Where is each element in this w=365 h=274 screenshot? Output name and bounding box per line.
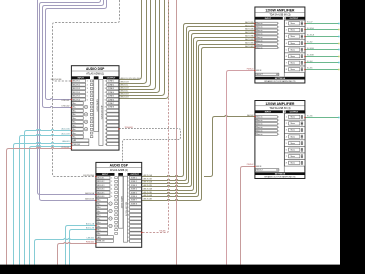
svg-text:6: 6 bbox=[278, 134, 279, 136]
wire end tick 8 bbox=[338, 69, 339, 71]
svg-text:3: 3 bbox=[286, 36, 287, 38]
svg-text:Mono: Mono bbox=[291, 143, 295, 145]
wire end tick 5 bbox=[338, 49, 339, 51]
svg-text:15: 15 bbox=[105, 133, 107, 135]
wire net SL-206 (green, amplifier2 output to right edge) bbox=[305, 117, 340, 119]
svg-text:Mic-: Mic- bbox=[73, 137, 77, 139]
svg-text:8: 8 bbox=[286, 69, 287, 71]
svg-text:AB-TL02A: AB-TL02A bbox=[144, 181, 153, 184]
svg-text:Mic-: Mic- bbox=[97, 211, 101, 213]
svg-text:17: 17 bbox=[105, 140, 107, 142]
svg-text:16: 16 bbox=[105, 137, 107, 139]
amplifier2 output pin marker bbox=[304, 117, 306, 119]
wire net AB-TL01A (olive, DSP2 output to amplifier1 input) bbox=[142, 24, 255, 177]
svg-text:SETTINGS: SETTINGS bbox=[275, 78, 286, 80]
svg-text:7: 7 bbox=[128, 200, 129, 202]
svg-text:PWR 24V: PWR 24V bbox=[73, 144, 81, 146]
svg-text:AB-D02-L: AB-D02-L bbox=[121, 84, 129, 87]
svg-text:SL-L07: SL-L07 bbox=[307, 22, 313, 24]
svg-text:1: 1 bbox=[278, 117, 279, 119]
svg-text:6: 6 bbox=[105, 99, 106, 101]
svg-text:OUTPUT: OUTPUT bbox=[290, 111, 299, 113]
wire net LAN-002 (cyan, bottom edge to DSP2) bbox=[35, 238, 96, 264]
svg-text:MIC/LN 4: MIC/LN 4 bbox=[73, 92, 80, 94]
wire net AB-D04-R (olive, DSP1 output to top edge) bbox=[119, 0, 169, 99]
svg-text:6: 6 bbox=[286, 56, 287, 58]
svg-text:ZONE 8: ZONE 8 bbox=[131, 203, 137, 205]
svg-text:INPUT: INPUT bbox=[265, 18, 272, 20]
svg-text:AB-TL01B: AB-TL01B bbox=[144, 177, 153, 180]
wire end tick 4 bbox=[338, 43, 339, 45]
svg-text:SL-206: SL-206 bbox=[307, 116, 313, 118]
svg-text:SPEAKER OUT FOR EARPHONE 7X5: SPEAKER OUT FOR EARPHONE 7X5 bbox=[264, 80, 295, 83]
svg-text:8: 8 bbox=[278, 47, 279, 49]
wire net AB-TL01B (olive, DSP2 output to amplifier1 input) bbox=[142, 27, 255, 181]
svg-text:AB-D01-R: AB-D01-R bbox=[121, 81, 130, 84]
svg-text:18: 18 bbox=[128, 241, 130, 243]
svg-text:Mic+: Mic+ bbox=[97, 222, 101, 224]
svg-text:Mono in: Mono in bbox=[256, 130, 262, 132]
svg-text:13: 13 bbox=[128, 222, 130, 224]
svg-text:OUTPUT: OUTPUT bbox=[107, 77, 116, 79]
svg-text:4: 4 bbox=[278, 34, 279, 36]
wire net ACD-L1B (cyan, bottom edge to DSP1) bbox=[20, 134, 72, 264]
audio dsp U1 (ATLAS AZM8 (1)) bbox=[71, 66, 119, 150]
svg-text:1200W AMPLIFIER: 1200W AMPLIFIER bbox=[265, 102, 295, 106]
svg-text:L1: L1 bbox=[110, 203, 112, 205]
svg-text:Mic+: Mic+ bbox=[97, 200, 101, 202]
svg-text:8: 8 bbox=[105, 107, 106, 109]
svg-text:AB-TL02B: AB-TL02B bbox=[245, 31, 254, 34]
DSP1 output/trigger pin markers bbox=[118, 128, 120, 130]
svg-text:Mic-: Mic- bbox=[73, 129, 77, 131]
wire net SL-L01A (green, amplifier1 output to right edge) bbox=[305, 29, 340, 31]
svg-text:SL-303B: SL-303B bbox=[307, 54, 314, 56]
svg-text:1: 1 bbox=[278, 23, 279, 25]
svg-text:2: 2 bbox=[286, 30, 287, 32]
wire end tick 7 bbox=[338, 62, 339, 64]
svg-text:L4: L4 bbox=[85, 129, 87, 131]
svg-text:1: 1 bbox=[87, 81, 88, 83]
svg-text:Mic-: Mic- bbox=[73, 107, 77, 109]
wire net AB-D06 (olive, junction on AB-TL01A up to amplifier2 input) bbox=[204, 115, 255, 176]
svg-text:Mono: Mono bbox=[291, 163, 295, 165]
svg-text:AB-D01-L/02-L/03-L/04-L: AB-D01-L/02-L/03-L/04-L bbox=[121, 77, 141, 80]
svg-text:PDW-01: PDW-01 bbox=[247, 69, 254, 71]
svg-text:Mono in: Mono in bbox=[256, 44, 262, 46]
svg-text:11: 11 bbox=[128, 215, 130, 217]
svg-text:AB-D06: AB-D06 bbox=[247, 114, 253, 117]
svg-text:Mono in: Mono in bbox=[256, 124, 262, 126]
svg-text:Mono: Mono bbox=[291, 62, 295, 64]
wire net ACD-L2A (cyan, bottom edge to DSP2) bbox=[66, 226, 96, 265]
svg-text:LAN-002: LAN-002 bbox=[87, 236, 94, 239]
svg-text:SL-301-B: SL-301-B bbox=[307, 35, 315, 37]
wire net LINK-001 (purple hook from top, to DSP1 pin) bbox=[46, 0, 107, 100]
svg-text:MATRIX MIXER: MATRIX MIXER bbox=[120, 196, 123, 209]
svg-text:SELECT: SELECT bbox=[256, 74, 263, 76]
svg-text:SL-305: SL-305 bbox=[307, 68, 313, 70]
wire net AB-D02-L (olive, DSP1 output to top edge) bbox=[119, 0, 151, 87]
svg-text:Mic-: Mic- bbox=[73, 114, 77, 116]
svg-text:Mic+: Mic+ bbox=[73, 125, 77, 127]
svg-text:9: 9 bbox=[105, 110, 106, 112]
svg-text:6: 6 bbox=[111, 196, 112, 198]
amplifier U4 (TDA 5A-USB 8V (4)) bbox=[255, 101, 305, 179]
svg-text:SL-302A: SL-302A bbox=[307, 47, 314, 50]
svg-text:PWR 24V: PWR 24V bbox=[97, 241, 105, 243]
svg-text:Mono in: Mono in bbox=[256, 47, 262, 49]
svg-text:16: 16 bbox=[128, 233, 130, 235]
svg-text:1: 1 bbox=[286, 23, 287, 25]
wire net AB-D02-R (olive, DSP1 output to top edge) bbox=[119, 0, 156, 90]
wire net PDW-02 (red, amplifier2 power pin down to bottom edge) bbox=[241, 167, 255, 265]
svg-text:Mic-: Mic- bbox=[97, 218, 101, 220]
wire net MIC-PHONE branch to DSP1 (gray dashed) bbox=[53, 79, 72, 81]
svg-text:12: 12 bbox=[105, 122, 107, 124]
svg-text:2: 2 bbox=[128, 181, 129, 183]
svg-text:Mic-: Mic- bbox=[97, 233, 101, 235]
svg-text:AIM-D01B: AIM-D01B bbox=[85, 198, 94, 201]
svg-text:7: 7 bbox=[286, 156, 287, 158]
svg-text:12: 12 bbox=[128, 218, 130, 220]
svg-text:ZONE 5: ZONE 5 bbox=[108, 96, 114, 98]
svg-text:SELECT: SELECT bbox=[256, 170, 263, 172]
svg-text:ATLAS AZM8 (2): ATLAS AZM8 (2) bbox=[110, 169, 128, 172]
wire net LINK-002 (purple hook from top, to DSP1 pin) bbox=[43, 0, 104, 108]
svg-text:Mic+: Mic+ bbox=[73, 110, 77, 112]
svg-text:4: 4 bbox=[87, 92, 88, 94]
svg-text:MIC/LN 5: MIC/LN 5 bbox=[97, 192, 104, 194]
svg-text:AB-TL01A: AB-TL01A bbox=[245, 21, 254, 24]
svg-text:AB-TL03A: AB-TL03A bbox=[144, 187, 153, 190]
wire net PDW-001 (red, bottom edge to DSP1) bbox=[7, 147, 72, 264]
svg-text:AB-TL03B: AB-TL03B bbox=[245, 38, 254, 41]
svg-text:2: 2 bbox=[111, 181, 112, 183]
svg-text:INPUT: INPUT bbox=[265, 111, 272, 113]
svg-text:10: 10 bbox=[105, 114, 107, 116]
svg-text:2: 2 bbox=[286, 123, 287, 125]
svg-text:14: 14 bbox=[128, 226, 130, 228]
svg-text:RS-485: RS-485 bbox=[159, 231, 165, 233]
svg-text:ACD-L2B: ACD-L2B bbox=[86, 226, 95, 229]
svg-text:MIC/LN 6: MIC/LN 6 bbox=[97, 196, 104, 198]
svg-text:INPUT: INPUT bbox=[102, 174, 109, 176]
svg-text:3: 3 bbox=[111, 185, 112, 187]
svg-text:4: 4 bbox=[111, 189, 112, 191]
svg-text:6: 6 bbox=[286, 149, 287, 151]
svg-text:ACD-L1B: ACD-L1B bbox=[62, 132, 71, 135]
svg-text:Mono in: Mono in bbox=[256, 127, 262, 129]
svg-text:2: 2 bbox=[278, 120, 279, 122]
svg-text:ZONE 2: ZONE 2 bbox=[131, 181, 137, 183]
svg-text:8: 8 bbox=[128, 203, 129, 205]
wire net SL-L04 (green, amplifier1 output to right edge) bbox=[305, 69, 340, 71]
wire net LAN-001B (cyan, bottom edge to DSP1) bbox=[30, 145, 72, 264]
svg-text:Mono in: Mono in bbox=[256, 134, 262, 136]
svg-text:ZONE 2: ZONE 2 bbox=[108, 84, 114, 86]
svg-text:1: 1 bbox=[105, 81, 106, 83]
svg-text:MIC/LN 3: MIC/LN 3 bbox=[73, 88, 80, 90]
svg-text:6: 6 bbox=[278, 40, 279, 42]
svg-text:Mic-: Mic- bbox=[97, 203, 101, 205]
svg-text:TDA 5A-USB 8V (3): TDA 5A-USB 8V (3) bbox=[269, 14, 290, 17]
screenshot black border right bbox=[340, 0, 365, 274]
wire end tick 9 bbox=[338, 117, 339, 119]
wire net SL-L03 (green, amplifier1 output to right edge) bbox=[305, 62, 340, 64]
svg-text:7: 7 bbox=[286, 62, 287, 64]
svg-text:Mono: Mono bbox=[291, 23, 295, 25]
svg-text:3: 3 bbox=[286, 130, 287, 132]
wire net RS-485 (red dashed, top edge down then left into DSP2) bbox=[142, 0, 169, 233]
svg-text:AB-D04-R: AB-D04-R bbox=[121, 96, 130, 99]
svg-text:Mono in: Mono in bbox=[256, 27, 262, 29]
svg-text:Mono: Mono bbox=[291, 117, 295, 119]
svg-text:L3: L3 bbox=[110, 218, 112, 220]
svg-text:7: 7 bbox=[278, 44, 279, 46]
DSP2 input pin markers bbox=[95, 176, 97, 178]
wire net AIM-D01A (purple, top edge to DSP2 pin) bbox=[38, 0, 96, 195]
svg-text:ZONE 6: ZONE 6 bbox=[131, 196, 137, 198]
svg-text:AB-TL01A: AB-TL01A bbox=[144, 174, 153, 177]
wire net AB-TL03B (olive, DSP2 output to amplifier1 input) bbox=[142, 41, 255, 194]
svg-text:AEC DSP ROUTE: AEC DSP ROUTE bbox=[100, 106, 103, 121]
svg-text:Mono: Mono bbox=[291, 30, 295, 32]
svg-text:MIC/LN 3: MIC/LN 3 bbox=[97, 185, 104, 187]
svg-text:13: 13 bbox=[105, 125, 107, 127]
svg-text:Mono in: Mono in bbox=[256, 120, 262, 122]
svg-text:LAN-001: LAN-001 bbox=[62, 140, 69, 143]
wire net AB-D03-L (olive, DSP1 output to top edge) bbox=[119, 0, 160, 93]
svg-text:SPEAKER OUT FOR EARPHONE 7X5: SPEAKER OUT FOR EARPHONE 7X5 bbox=[264, 175, 295, 178]
svg-text:Mono in: Mono in bbox=[256, 30, 262, 32]
svg-text:4: 4 bbox=[286, 136, 287, 138]
svg-text:2: 2 bbox=[278, 27, 279, 29]
svg-text:PDW-002: PDW-002 bbox=[86, 242, 94, 244]
svg-text:4: 4 bbox=[128, 189, 129, 191]
wire end tick 6 bbox=[338, 56, 339, 58]
wire net AB-D01-R (olive, DSP1 output to top edge) bbox=[119, 0, 147, 84]
svg-text:ACD-L2A: ACD-L2A bbox=[86, 223, 95, 226]
svg-text:Mono in: Mono in bbox=[256, 23, 262, 25]
svg-text:3: 3 bbox=[278, 124, 279, 126]
svg-text:AUDIO DSP: AUDIO DSP bbox=[110, 164, 129, 168]
svg-text:5: 5 bbox=[128, 192, 129, 194]
svg-text:ZONE 4: ZONE 4 bbox=[131, 189, 137, 191]
svg-text:AIM-D01A: AIM-D01A bbox=[85, 192, 94, 195]
svg-text:TRIGGER: TRIGGER bbox=[125, 127, 134, 129]
wire net SL-L02 (green, amplifier1 output to right edge) bbox=[305, 43, 340, 45]
svg-text:AB-TL04B: AB-TL04B bbox=[245, 45, 254, 48]
svg-text:OUTPUT: OUTPUT bbox=[130, 174, 139, 176]
svg-text:Mono: Mono bbox=[291, 43, 295, 45]
svg-text:4: 4 bbox=[286, 43, 287, 45]
svg-text:AUDIO DSP: AUDIO DSP bbox=[86, 67, 105, 71]
svg-text:3: 3 bbox=[128, 185, 129, 187]
svg-text:1200W AMPLIFIER: 1200W AMPLIFIER bbox=[265, 8, 295, 12]
audio dsp U2 (ATLAS AZM8 (2)) bbox=[96, 162, 142, 247]
svg-text:AB-D03-L: AB-D03-L bbox=[121, 90, 129, 93]
wire net PDW-002 (red, bottom edge to DSP2) bbox=[58, 242, 96, 264]
screenshot black border bottom bbox=[0, 265, 365, 274]
svg-text:Mic-: Mic- bbox=[73, 122, 77, 124]
svg-text:5: 5 bbox=[286, 143, 287, 145]
wire net AIM-D01B (purple hook from top, to DSP2 pin) bbox=[40, 0, 101, 201]
wire net SL-L02A (green, amplifier1 output to right edge) bbox=[305, 49, 340, 51]
svg-text:MIC/LN 6: MIC/LN 6 bbox=[73, 99, 80, 101]
svg-text:Mic+: Mic+ bbox=[73, 103, 77, 105]
svg-text:MIC/LN 4: MIC/LN 4 bbox=[97, 189, 104, 191]
svg-text:Mic+: Mic+ bbox=[97, 215, 101, 217]
svg-text:LINK-002: LINK-002 bbox=[62, 106, 70, 108]
svg-text:8: 8 bbox=[286, 163, 287, 165]
svg-text:485 IN: 485 IN bbox=[256, 70, 262, 72]
svg-text:AB-D03-R: AB-D03-R bbox=[121, 93, 130, 96]
wire net AB-TL04A (olive, DSP2 output to amplifier1 input) bbox=[142, 45, 255, 197]
svg-text:3: 3 bbox=[87, 88, 88, 90]
svg-text:3: 3 bbox=[278, 30, 279, 32]
svg-text:17: 17 bbox=[128, 237, 130, 239]
svg-text:Mono: Mono bbox=[291, 56, 295, 58]
svg-text:ZONE 6: ZONE 6 bbox=[108, 99, 114, 101]
svg-text:5: 5 bbox=[278, 130, 279, 132]
svg-text:7: 7 bbox=[105, 103, 106, 105]
wire net SL-L02B (green, amplifier1 output to right edge) bbox=[305, 56, 340, 58]
svg-text:AB-TL04A: AB-TL04A bbox=[245, 41, 254, 44]
svg-text:5: 5 bbox=[286, 49, 287, 51]
svg-text:5: 5 bbox=[87, 96, 88, 98]
wire net ACD-L1A (cyan, bottom edge to DSP1) bbox=[25, 129, 72, 264]
svg-text:Mono in: Mono in bbox=[256, 40, 262, 42]
svg-text:ZONE 3: ZONE 3 bbox=[131, 185, 137, 187]
svg-text:Mic+: Mic+ bbox=[73, 133, 77, 135]
svg-text:Mono: Mono bbox=[291, 130, 295, 132]
amplifier2 input pin markers bbox=[254, 116, 256, 118]
svg-text:ZONE 5: ZONE 5 bbox=[131, 192, 137, 194]
wire end tick 1 bbox=[338, 23, 339, 25]
svg-text:L2: L2 bbox=[85, 114, 87, 116]
svg-text:OUTPUT: OUTPUT bbox=[290, 18, 299, 20]
svg-text:6: 6 bbox=[87, 99, 88, 101]
svg-text:485 IN: 485 IN bbox=[256, 166, 262, 168]
svg-text:ZONE 7: ZONE 7 bbox=[108, 103, 114, 105]
amplifier1 output pin markers bbox=[304, 23, 306, 25]
svg-text:PDW-02: PDW-02 bbox=[247, 164, 254, 166]
svg-text:SL-302: SL-302 bbox=[307, 41, 313, 43]
wire net TRIGGER (gray dashed, DSP1 right side loop down to DSP2 top) bbox=[119, 129, 181, 163]
svg-text:Mono: Mono bbox=[291, 36, 295, 38]
DSP1 input pin markers bbox=[70, 80, 72, 82]
svg-text:ZONE 4: ZONE 4 bbox=[108, 92, 114, 94]
svg-text:SETTINGS: SETTINGS bbox=[275, 173, 286, 175]
svg-text:MIC/LN 5: MIC/LN 5 bbox=[73, 96, 80, 98]
svg-text:Mic+: Mic+ bbox=[97, 207, 101, 209]
wire net AB-TL03A (olive, DSP2 output to amplifier1 input) bbox=[142, 38, 255, 191]
svg-text:5: 5 bbox=[111, 192, 112, 194]
svg-text:L1: L1 bbox=[85, 107, 87, 109]
svg-text:Mono: Mono bbox=[291, 156, 295, 158]
svg-text:4: 4 bbox=[278, 127, 279, 129]
wire net AB-TL02B (olive, DSP2 output to amplifier1 input) bbox=[142, 34, 255, 187]
svg-text:L4: L4 bbox=[110, 226, 112, 228]
wire net AB-D03-R (olive, DSP1 output to top edge) bbox=[119, 0, 165, 96]
svg-text:ZONE 1: ZONE 1 bbox=[108, 81, 114, 83]
svg-text:2: 2 bbox=[87, 84, 88, 86]
wire end tick 3 bbox=[338, 36, 339, 38]
svg-text:Mono: Mono bbox=[291, 123, 295, 125]
svg-text:PDW-001: PDW-001 bbox=[61, 147, 69, 149]
svg-text:ZONE 1: ZONE 1 bbox=[131, 177, 137, 179]
svg-text:14: 14 bbox=[105, 129, 107, 131]
svg-text:Mono: Mono bbox=[291, 136, 295, 138]
wire net PDW-01 (pink, amplifier1 power pin down to bottom edge) bbox=[227, 71, 255, 265]
DSP2 RS-485 pin marker bbox=[141, 232, 143, 234]
svg-text:AB-TL04B: AB-TL04B bbox=[144, 198, 153, 201]
wire net AB-TL04B (olive, DSP2 output to amplifier1 input) bbox=[142, 48, 255, 201]
svg-text:1: 1 bbox=[286, 117, 287, 119]
amplifier1 input pin markers bbox=[254, 23, 256, 25]
svg-text:Mic+: Mic+ bbox=[73, 118, 77, 120]
wire net AB-TL02A (olive, DSP2 output to amplifier1 input) bbox=[142, 31, 255, 184]
svg-text:INPUT: INPUT bbox=[78, 77, 85, 79]
svg-text:AB-TL02A: AB-TL02A bbox=[245, 28, 254, 31]
svg-text:Mono: Mono bbox=[291, 69, 295, 71]
svg-text:MIC/LN 1: MIC/LN 1 bbox=[73, 81, 80, 83]
svg-text:10: 10 bbox=[128, 211, 130, 213]
svg-text:Mono in: Mono in bbox=[256, 34, 262, 36]
svg-text:Mono in: Mono in bbox=[256, 117, 262, 119]
wire end tick 2 bbox=[338, 29, 339, 31]
svg-text:Mono: Mono bbox=[291, 149, 295, 151]
svg-text:ZONE 8: ZONE 8 bbox=[108, 107, 114, 109]
wire net SL-L01-B (green, amplifier1 output to right edge) bbox=[305, 36, 340, 38]
svg-text:ATLAS AZM8 (1): ATLAS AZM8 (1) bbox=[86, 72, 104, 75]
svg-text:MIC/LN 1: MIC/LN 1 bbox=[97, 177, 104, 179]
svg-text:Mono in: Mono in bbox=[256, 37, 262, 39]
svg-text:AB-TL03A: AB-TL03A bbox=[245, 35, 254, 38]
wire net ACD-L2B (cyan, bottom edge to DSP2) bbox=[70, 230, 96, 265]
wire net AB-D01-L/02-L/03-L/04-L (olive, DSP1 output to top edge) bbox=[119, 0, 142, 80]
svg-text:5: 5 bbox=[278, 37, 279, 39]
svg-text:3: 3 bbox=[105, 88, 106, 90]
svg-text:4: 4 bbox=[105, 92, 106, 94]
svg-text:MATRIX MIXER: MATRIX MIXER bbox=[96, 99, 99, 112]
svg-text:AB-TL04A: AB-TL04A bbox=[144, 194, 153, 197]
svg-text:L2: L2 bbox=[110, 211, 112, 213]
svg-text:SL-304: SL-304 bbox=[307, 61, 313, 63]
amplifier U3 (TDA 5A-USB 8V (3)) bbox=[255, 7, 305, 83]
svg-text:2: 2 bbox=[105, 84, 106, 86]
svg-text:AB-TL01B: AB-TL01B bbox=[245, 24, 254, 27]
svg-text:AB-TL02B: AB-TL02B bbox=[144, 184, 153, 187]
svg-text:1: 1 bbox=[111, 177, 112, 179]
svg-text:MIC/PHONE: MIC/PHONE bbox=[83, 175, 94, 177]
svg-text:MIC/PHONE: MIC/PHONE bbox=[51, 79, 62, 81]
svg-text:1: 1 bbox=[128, 177, 129, 179]
svg-text:L3: L3 bbox=[85, 121, 87, 123]
svg-text:AB-D02-R: AB-D02-R bbox=[121, 87, 130, 90]
svg-text:TDA 5A-USB 8V (4): TDA 5A-USB 8V (4) bbox=[269, 107, 290, 110]
wire net MIC-PHONE bus (gray dashed: top edge, down, left, down to DSP2) bbox=[53, 0, 120, 177]
svg-text:ACD-L1A: ACD-L1A bbox=[62, 128, 71, 131]
svg-text:MIC/LN 2: MIC/LN 2 bbox=[73, 84, 80, 86]
svg-text:6: 6 bbox=[128, 196, 129, 198]
svg-text:SL-301A: SL-301A bbox=[307, 27, 314, 30]
wire net LAN-001 (cyan, bottom edge to DSP1) bbox=[14, 142, 72, 264]
svg-text:ZONE 3: ZONE 3 bbox=[108, 88, 114, 90]
svg-text:18: 18 bbox=[105, 144, 107, 146]
svg-text:11: 11 bbox=[105, 118, 107, 120]
